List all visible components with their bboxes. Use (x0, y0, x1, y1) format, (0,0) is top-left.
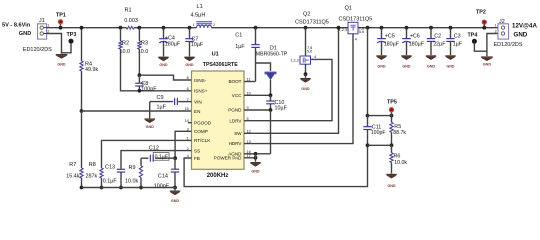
wire SS line (121, 151, 192, 170)
wire top rail R1 to L1 (137, 27, 197, 29)
svg-text:COMP: COMP (194, 129, 208, 134)
ground J1 (56, 55, 68, 67)
svg-text:POWER PAD: POWER PAD (214, 155, 242, 160)
svg-text:100pF: 100pF (141, 87, 157, 93)
svg-text:15.4k: 15.4k (66, 173, 79, 179)
resistor R6 10.0k (390, 145, 408, 173)
svg-text:5,6: 5,6 (307, 50, 312, 54)
svg-text:PGND: PGND (228, 108, 242, 113)
label GND output (514, 32, 528, 39)
svg-text:0.1µF: 0.1µF (103, 178, 118, 184)
svg-text:C2: C2 (434, 33, 441, 39)
svg-text:C3: C3 (454, 33, 461, 39)
resistor R8 287k (86, 162, 104, 179)
wire PGND pin 9 (244, 108, 272, 112)
svg-text:GND: GND (387, 184, 396, 188)
wire R9 to ground rail (139, 178, 143, 190)
transistor Q2 CSD17311Q5 (290, 11, 328, 77)
wire J2 pin2 to ground (487, 34, 498, 57)
svg-text:PGOOD: PGOOD (194, 121, 212, 126)
U1 left pin labels (194, 78, 212, 161)
svg-text:TPS43061RTE: TPS43061RTE (203, 62, 238, 68)
resistor R2 10.0 (119, 28, 130, 55)
ground C7 (184, 57, 194, 67)
inductor L1 4.5uH (191, 4, 216, 28)
svg-text:1: 1 (495, 24, 497, 28)
svg-text:R7: R7 (69, 162, 76, 168)
wire top rail Q1 to J2 (358, 27, 498, 29)
svg-text:R9: R9 (129, 165, 136, 171)
node FB divider (366, 143, 394, 147)
svg-text:4: 4 (355, 38, 357, 42)
svg-text:100pF: 100pF (154, 184, 170, 190)
svg-text:MBR0560-TP: MBR0560-TP (256, 51, 288, 57)
capacitor C10 10uF (266, 95, 287, 111)
test point TP2 (476, 10, 486, 30)
svg-text:200KHz: 200KHz (207, 173, 229, 179)
svg-text:CSD17311Q5: CSD17311Q5 (339, 17, 373, 23)
ground C2 (426, 56, 436, 68)
capacitor C5 180uF (377, 26, 400, 55)
svg-text:GND: GND (159, 63, 168, 67)
ground J2 (481, 57, 493, 66)
svg-text:180µF: 180µF (384, 41, 400, 47)
svg-text:180µF: 180µF (409, 41, 425, 47)
svg-text:5,6: 5,6 (359, 30, 364, 34)
capacitor C12 0.1uF (141, 145, 175, 161)
svg-text:0.003: 0.003 (124, 18, 138, 24)
label 5V - 8.6Vin (2, 22, 31, 28)
test point TP5 (387, 99, 397, 115)
wire TP4 to ground (474, 44, 487, 51)
svg-text:12V@4A: 12V@4A (512, 22, 537, 29)
wire COMP pin 3 (173, 131, 191, 160)
svg-text:R2: R2 (122, 40, 129, 46)
wire sense node to R5 (368, 114, 394, 118)
U1 pin numbers (185, 76, 251, 158)
svg-text:C1: C1 (235, 32, 242, 38)
resistor R7 15.4k (66, 162, 83, 179)
svg-text:1µF: 1µF (235, 44, 245, 50)
svg-text:TP5: TP5 (387, 99, 397, 105)
svg-text:R6: R6 (394, 153, 401, 159)
resistor R5 88.7k (390, 116, 407, 146)
svg-text:8: 8 (187, 76, 189, 80)
svg-text:5V - 8.6Vin: 5V - 8.6Vin (2, 22, 31, 28)
wire RT/CLK line (102, 140, 192, 168)
test point TP3 (67, 32, 77, 44)
ground C6 (401, 56, 411, 68)
svg-text:2: 2 (213, 23, 215, 27)
wire BOOT pin 11 (244, 81, 256, 83)
capacitor C2 22uF (427, 26, 447, 55)
capacitor C3 1uF (446, 26, 463, 55)
wire FB pin to divider (184, 145, 367, 186)
svg-text:TP1: TP1 (56, 13, 66, 19)
ground C5 (376, 56, 386, 68)
svg-text:R1: R1 (125, 7, 132, 13)
ground R6 (386, 175, 396, 189)
svg-text:+C5: +C5 (385, 33, 395, 39)
label ED120/2DS J2 (494, 42, 523, 48)
svg-text:L1: L1 (197, 4, 203, 10)
svg-text:TP3: TP3 (67, 32, 77, 38)
capacitor C7 10uF (185, 26, 204, 57)
svg-text:Q1: Q1 (345, 5, 352, 11)
svg-text:J2: J2 (499, 19, 505, 25)
svg-text:2: 2 (495, 30, 497, 34)
svg-text:GND: GND (483, 62, 492, 66)
svg-text:R3: R3 (141, 40, 148, 46)
capacitor C4 180uF (159, 26, 181, 57)
diode D1 MBR0560-TP (256, 46, 288, 96)
connector J2 (495, 19, 509, 39)
test point TP1 (56, 13, 66, 30)
svg-text:TP4: TP4 (468, 32, 478, 38)
wire R3 to ISNS- (138, 49, 192, 80)
wire POWER PAD pin 17 (244, 154, 257, 162)
wire top rail J1 to R1 (47, 27, 123, 29)
svg-text:+C6: +C6 (410, 33, 420, 39)
svg-text:C9: C9 (157, 95, 164, 101)
wire BOOT to D1 cathode (256, 63, 271, 71)
resistor R9 10.0k (125, 158, 143, 184)
wire TP3 to ground (62, 44, 72, 53)
svg-text:GND: GND (251, 170, 260, 174)
svg-text:GND: GND (402, 64, 411, 68)
svg-text:10.0k: 10.0k (394, 160, 407, 166)
svg-text:GND: GND (301, 87, 310, 91)
svg-text:1: 1 (193, 23, 195, 27)
svg-text:ED120/2DS: ED120/2DS (494, 42, 523, 48)
ground C9 (145, 119, 155, 129)
transistor Q1 CSD17311Q5 (339, 5, 373, 41)
svg-text:SS: SS (194, 148, 200, 153)
resistor R3 10.0 (138, 28, 149, 55)
svg-text:J1: J1 (39, 18, 45, 24)
svg-text:BOOT: BOOT (228, 79, 241, 84)
svg-text:4.5µH: 4.5µH (191, 12, 206, 18)
svg-text:GND: GND (19, 31, 31, 37)
svg-text:ED120/2DS: ED120/2DS (23, 47, 52, 53)
ground rail symbol (170, 188, 180, 204)
test point TP4 (468, 32, 478, 43)
node EN junction (80, 109, 84, 113)
wire EN line to pin 15 (82, 110, 192, 112)
svg-text:22µF: 22µF (433, 41, 446, 47)
svg-text:ISNS-: ISNS- (194, 78, 207, 83)
svg-text:GND: GND (57, 63, 66, 67)
wire LDRV pin 5 to Q2 gate (244, 59, 332, 120)
wire PGOOD stub pin 14 (188, 122, 192, 124)
wire R8 to ground rail (100, 178, 104, 189)
connector J1 (38, 18, 50, 39)
wire J1 pin2 to ground (47, 34, 62, 54)
svg-text:1µF: 1µF (157, 105, 167, 111)
svg-text:EN: EN (194, 109, 200, 114)
capacitor C8 100pF (135, 75, 157, 93)
wire R4 to EN node (81, 71, 83, 111)
svg-text:88.7k: 88.7k (393, 130, 406, 136)
capacitor C1 1uF (235, 26, 259, 82)
label 12V@4A (512, 22, 537, 29)
svg-text:Q2: Q2 (303, 11, 310, 17)
svg-text:SW: SW (234, 131, 242, 136)
svg-text:15: 15 (185, 107, 189, 111)
svg-text:GND: GND (377, 64, 386, 68)
svg-text:0.1µF: 0.1µF (155, 155, 168, 161)
capacitor C13 0.1uF (103, 164, 125, 189)
wire SW pin 12 to switch node (244, 26, 340, 134)
wire R4 top (80, 26, 84, 61)
svg-text:4: 4 (314, 55, 316, 59)
svg-text:GND: GND (171, 199, 180, 203)
label GND input (19, 31, 31, 37)
wire HDRV pin 13 to Q1 gate (244, 34, 353, 144)
svg-text:C13: C13 (105, 164, 115, 170)
capacitor C11 100pF (363, 116, 385, 146)
svg-text:TP2: TP2 (476, 10, 486, 16)
svg-text:10µF: 10µF (191, 42, 204, 48)
wire R2 to ISNS+ (121, 49, 192, 91)
wire top rail L1 to Q1 (212, 27, 349, 29)
resistor R1 0.003 (119, 7, 142, 29)
ground AGND (250, 163, 260, 174)
svg-text:100pF: 100pF (371, 130, 386, 136)
svg-text:VIN: VIN (194, 99, 202, 104)
svg-text:VCC: VCC (232, 93, 242, 98)
svg-text:+C4: +C4 (165, 36, 175, 42)
ground C3 (445, 56, 455, 68)
svg-text:C14: C14 (158, 173, 168, 179)
svg-text:1,2,3: 1,2,3 (339, 28, 347, 32)
svg-text:CSD17311Q5: CSD17311Q5 (295, 19, 329, 25)
wire C9 to ground (149, 102, 151, 119)
svg-text:1µF: 1µF (453, 41, 463, 47)
op-amp U1 TPS43061RTE controller (192, 52, 245, 179)
node output sense tap (366, 26, 370, 30)
svg-text:GND: GND (146, 125, 155, 129)
svg-text:HDRV: HDRV (229, 141, 243, 146)
svg-text:RT/CLK: RT/CLK (194, 138, 211, 143)
ground C4 (158, 57, 168, 67)
svg-text:LDRV: LDRV (229, 118, 242, 123)
U1 right pin labels (214, 79, 243, 160)
svg-text:GND: GND (185, 63, 194, 67)
wire AGND pin 16 (244, 152, 271, 156)
capacitor C14 100pF (154, 158, 179, 189)
svg-text:10.0k: 10.0k (125, 178, 138, 184)
svg-text:287k: 287k (86, 173, 98, 179)
label ED120/2DS J1 (23, 47, 52, 53)
svg-text:10µF: 10µF (275, 105, 288, 111)
wire EN node to R7 (81, 111, 83, 168)
svg-text:R8: R8 (89, 162, 96, 168)
svg-text:FB: FB (194, 156, 200, 161)
svg-text:49.9k: 49.9k (85, 67, 98, 73)
svg-text:ISNS+: ISNS+ (194, 89, 208, 94)
svg-text:6: 6 (187, 87, 189, 91)
svg-text:U1: U1 (212, 52, 219, 58)
capacitor C9 1uF (150, 95, 192, 110)
wire VCC pin 10 (244, 93, 272, 97)
resistor R4 49.9k (80, 61, 99, 73)
capacitor C6 180uF (402, 26, 425, 55)
wire R7 to ground rail (80, 178, 84, 189)
ground Q2 (300, 79, 310, 92)
svg-text:GND: GND (514, 32, 528, 39)
svg-text:180µF: 180µF (165, 42, 181, 48)
wire sense line down (366, 28, 370, 118)
svg-text:GND: GND (446, 64, 455, 68)
svg-text:1,2,3: 1,2,3 (290, 58, 298, 62)
svg-text:GND: GND (427, 64, 436, 68)
wire PGND to AGND net (270, 110, 272, 154)
wire ground rail (82, 187, 177, 189)
